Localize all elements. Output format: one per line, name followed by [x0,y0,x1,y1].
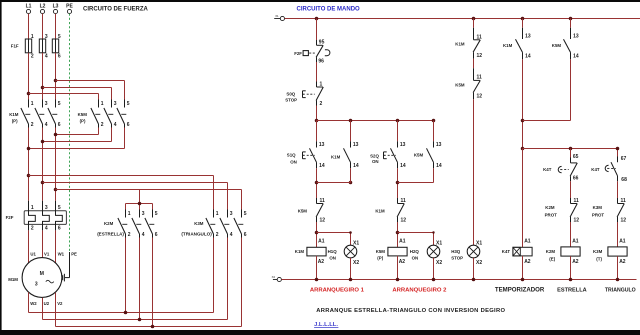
label K5M aux (col7) [552,43,562,48]
svg-text:11: 11 [574,198,580,204]
node K2M pole 2 junction [138,318,142,322]
node bottom rail lamp H2Q [432,278,436,282]
node L2 tap to K5M [41,86,45,90]
wire K5M NC to coil [316,222,318,247]
svg-text:12: 12 [574,218,580,224]
contactor K1M pole 2 [35,100,48,129]
motor M1M [22,258,62,298]
svg-text:14: 14 [319,163,325,169]
lamp H1Q [344,240,359,266]
svg-text:X2: X2 [272,275,276,279]
svg-text:ESTRELLA: ESTRELLA [557,287,587,293]
node tap L1 to K3M [27,174,31,178]
svg-text:K5M: K5M [376,249,386,254]
contact K1M aux 13-14 (col6) [516,28,531,60]
svg-text:L2: L2 [40,4,46,10]
svg-text:A2: A2 [524,259,531,265]
svg-text:X1: X1 [436,240,442,246]
svg-text:F2F: F2F [294,51,302,56]
wire F2F to motor W1 [55,230,57,263]
node merge L3 [54,133,58,137]
svg-text:95: 95 [319,40,325,46]
contact K5M aux 13-14 [427,141,442,169]
svg-text:K5M: K5M [414,152,424,157]
node timer feed [521,147,525,151]
svg-text:W1: W1 [58,252,65,257]
wire K5M aux to tie2 [433,168,435,182]
pushbutton S1Q ON [303,141,325,169]
thermal relay F2F element 2 [43,201,50,232]
svg-text:A2: A2 [318,259,325,265]
svg-text:13: 13 [573,33,579,39]
wire U2 down [42,298,44,320]
svg-text:1: 1 [101,101,104,107]
wire K1M pole 2 output down [42,128,44,201]
node tie K1M/K5M aux [521,119,525,123]
svg-text:U1: U1 [30,252,36,257]
caption ARRANQUEGIRO 2 [392,287,447,293]
svg-text:3: 3 [114,101,117,107]
svg-text:1: 1 [216,211,219,217]
caption title [316,308,505,314]
wire bottom bus 1 [29,312,214,314]
terminal L1 [26,4,32,14]
coil K4T (timer) [513,239,532,265]
label K5M NC (col5) [455,83,465,88]
svg-text:3: 3 [45,34,48,40]
svg-text:(P): (P) [377,256,383,261]
terminal X1 [274,14,284,21]
wire lamp H3Q to rail [473,258,475,280]
svg-text:(T): (T) [596,257,602,262]
label K2M PROT [545,205,558,218]
contactor K1M label [9,112,19,124]
svg-text:4: 4 [230,232,233,238]
svg-text:65: 65 [573,154,579,160]
svg-text:PE: PE [71,252,77,257]
svg-text:L3: L3 [53,4,59,10]
node merge L2 [41,140,45,144]
wire K5M pole 1 output to L3 column [56,128,99,135]
svg-text:K5M: K5M [78,112,88,117]
wire K1M NC to coil [397,222,399,247]
wire control top rail [285,18,640,20]
svg-text:(ESTRELLA): (ESTRELLA) [97,231,124,236]
svg-text:(P): (P) [80,118,86,123]
svg-text:ARRANQUEGIRO 1: ARRANQUEGIRO 1 [310,287,365,293]
wire K3M pole 1 to bottom bus [213,238,215,313]
svg-text:13: 13 [525,33,531,39]
contactor K2M label [97,221,124,236]
svg-text:TEMPORIZADOR: TEMPORIZADOR [495,286,545,293]
coil K2M [561,239,580,265]
svg-text:12: 12 [621,218,627,224]
svg-text:3: 3 [35,282,38,288]
terminal L3 [53,4,59,14]
wire coil K1M to rail [316,256,318,280]
svg-text:STOP: STOP [285,97,297,102]
wire K2M pole 2 to bottom bus [139,238,141,320]
wire lamp H1Q to rail [350,258,352,280]
svg-text:2: 2 [31,122,34,128]
node K2M pole 3 junction [151,325,155,329]
svg-text:11: 11 [401,198,407,204]
label S1Q ON [287,152,297,164]
wire lamp H1Q feed [317,233,351,246]
svg-text:K4T: K4T [543,167,552,172]
svg-text:X2: X2 [436,260,442,266]
svg-text:A2: A2 [572,259,579,265]
svg-text:3: 3 [45,205,48,211]
wire F2F to S0Q [316,62,318,82]
node L1 tap to K5M [27,92,31,96]
svg-text:ON: ON [290,159,297,164]
svg-text:6: 6 [58,122,61,128]
wire PE (green dashed) [69,14,71,252]
svg-text:4: 4 [142,232,145,238]
title CIRCUITO DE FUERZA [83,6,149,12]
node feeder to K4T NC [569,147,573,151]
node branch2 lamp tap [396,231,400,235]
label K1M aux [331,154,341,159]
label S2Q ON [370,154,379,164]
wire timed contacts feeder [523,148,618,150]
svg-text:H2Q: H2Q [410,249,420,254]
wire S1Q to tie1 [316,168,318,198]
node lamp H1Q feed [349,231,352,234]
svg-text:14: 14 [436,163,442,169]
wire S2Q to tie2 [397,168,399,198]
svg-text:K5M: K5M [552,43,562,48]
svg-text:1: 1 [128,211,131,217]
wire L2 fuse to K1M [42,53,44,100]
thermal relay F2F element 3 [56,201,63,232]
lamp H2Q [427,240,442,266]
label F2F (control) [294,51,302,56]
svg-text:X1: X1 [476,240,482,246]
label K4T timed NC [543,167,552,172]
label K3M PROT [592,205,605,218]
contactor K5M pole 1 [91,100,104,129]
thermal relay F2F element 1 [29,201,36,232]
svg-text:M1M: M1M [8,277,18,282]
label K1M NC (col5) [455,42,465,47]
svg-text:13: 13 [436,142,442,148]
coil K1M [307,239,326,265]
fuse F1F pole 3 [52,34,61,59]
svg-text:H3Q: H3Q [451,249,461,254]
wire K2M pole 3 to bottom bus [152,238,154,327]
wire tap L3 to K5M pin 5 [56,81,125,100]
title CIRCUITO DE MANDO [297,6,361,12]
wire K2M PROT to coil [570,222,572,247]
terminal PE [66,4,73,14]
svg-text:12: 12 [477,53,483,59]
svg-text:ON: ON [372,159,379,164]
fuse F1F label [11,43,19,48]
pushbutton S2Q ON [384,141,406,169]
svg-text:5: 5 [58,34,61,40]
wire tie1 [317,182,351,184]
wire K3M pole 2 to bottom bus [227,238,229,320]
wire tap L2 to K5M pin 3 [43,88,112,100]
wire tie aux outputs [523,120,571,122]
wire rail2 to S1Q [316,121,318,142]
svg-text:PROT: PROT [545,213,558,218]
wire tie2 [398,182,434,184]
node tie branch2 [396,181,400,185]
svg-text:4: 4 [45,53,48,59]
contactor K5M pole 3 [117,100,130,129]
svg-text:L1: L1 [26,4,32,10]
svg-text:X2: X2 [476,260,482,266]
wire tap L1 to K3M pin 1 [29,176,214,210]
svg-text:11: 11 [621,198,627,204]
svg-text:K3M: K3M [593,249,603,254]
svg-text:A1: A1 [399,239,406,245]
wire K5M aux col7 down [570,59,572,120]
wire rail to K1M aux (col6) [522,19,524,28]
svg-text:M: M [40,271,44,277]
svg-text:2: 2 [31,226,34,232]
svg-text:ARRANQUEGIRO 2: ARRANQUEGIRO 2 [392,287,447,293]
svg-text:1: 1 [31,34,34,40]
svg-text:W2: W2 [30,301,37,306]
svg-text:6: 6 [58,53,61,59]
wire lamp H2Q feed [398,233,434,246]
wire K1M pole 1 output down [28,128,30,201]
wire feeder to K4T timed NC [570,149,572,158]
svg-text:6: 6 [127,122,130,128]
svg-text:A1: A1 [572,239,579,245]
svg-text:K1M: K1M [455,42,465,47]
svg-text:S1Q: S1Q [287,152,296,157]
thermal contact F2F 95-96 [303,40,330,65]
svg-text:13: 13 [400,142,406,148]
wire coil K2M to rail [570,256,572,279]
node bottom rail K3M coil [616,278,620,282]
wire K5M pole 3 output to L1 column [29,128,125,149]
contactor K1M pole 1 [21,100,34,129]
svg-text:K4T: K4T [591,167,600,172]
wire rail2 to S2Q [397,121,399,142]
motor label M1M [8,277,18,282]
svg-text:96: 96 [318,59,324,65]
wire coil K4T to rail [522,256,524,280]
wire K1M pole 3 output down [55,128,57,201]
svg-text:STOP: STOP [451,256,463,261]
svg-text:5: 5 [58,101,61,107]
wire L1 to fuse [28,14,30,39]
label coil K3M [593,249,603,261]
node tie branch1 [315,181,319,185]
wire L3 to fuse [55,14,57,39]
svg-text:2: 2 [216,232,219,238]
contactor K3M label [181,221,212,236]
svg-text:12: 12 [320,218,326,224]
wire rail2 [317,120,434,122]
terminal X2 [272,275,282,282]
wire K1M aux to tie1 [350,168,352,182]
svg-text:3: 3 [45,101,48,107]
contact K1M NC interlock [397,198,406,224]
svg-text:U2: U2 [44,301,50,306]
svg-text:6: 6 [244,232,247,238]
svg-text:PROT: PROT [592,213,605,218]
wire L3 fuse to K1M [55,53,57,100]
label K1M NC [375,208,385,213]
wire F2F to motor V1 [42,230,44,258]
node branch1 lamp tap [315,231,319,235]
contactor K3M pole 3 [234,210,247,239]
svg-text:14: 14 [573,54,579,60]
contactor K1M pole 3 [48,100,61,129]
fuse F1F pole 1 [25,34,34,59]
svg-text:(TRIANGULO): (TRIANGULO) [181,231,212,236]
contact K3M PROT NC [617,198,626,224]
svg-text:K1M: K1M [331,154,341,159]
wire K2M pole 1 to bottom bus [125,238,127,313]
wire K4T NO to K3M PROT [617,181,619,198]
node top rail star branch [569,17,573,21]
svg-text:S2Q: S2Q [370,154,379,159]
svg-text:14: 14 [525,54,531,60]
svg-text:K2M: K2M [104,221,114,226]
node tie K1M aux [349,181,353,185]
node L3 tap to K5M [54,79,58,83]
fuse F1F pole 2 [39,34,48,59]
caption TRIANGULO [605,287,636,293]
svg-text:V1: V1 [44,252,50,257]
svg-text:ON: ON [412,256,419,261]
svg-text:K1M: K1M [295,249,305,254]
coil K5M [388,239,407,265]
contact K5M aux 13-14 (col7) [564,28,579,60]
svg-text:3: 3 [230,211,233,217]
node bottom rail K4T coil [521,278,525,282]
svg-text:A2: A2 [399,259,406,265]
coil K3M [608,239,627,265]
svg-text:2: 2 [101,122,104,128]
node lamp H2Q feed [432,231,434,233]
contact K2M PROT NC [570,198,579,224]
wire L1 fuse to K1M [28,53,30,100]
contactor K2M pole 2 [132,210,145,239]
wire coil K3M to rail [617,256,619,279]
caption ARRANQUEGIRO 1 [310,287,365,293]
contactor K3M pole 1 [206,210,219,239]
label S0Q STOP [285,92,297,103]
svg-text:F2F: F2F [6,215,14,220]
wire K3M pole 3 to bottom bus [241,238,243,327]
label coil K2M [546,249,556,261]
contact K5M NC interlock [316,198,325,224]
svg-text:12: 12 [401,218,407,224]
motor terminal labels U1 V1 W1 PE [30,252,77,257]
svg-text:X2: X2 [353,260,359,266]
label H2Q ON [410,249,420,260]
node bottom rail K5M coil [396,278,400,282]
node bottom rail lamp H3Q [472,278,476,282]
wire rail2 to K1M aux [350,121,352,142]
wire control bottom rail [281,279,636,281]
wire K5M pole 2 output to L2 column [43,128,112,142]
thermal relay F2F body [24,211,66,225]
svg-text:K2M: K2M [546,249,556,254]
label H3Q STOP [451,249,463,260]
wire S0Q to rail2 [316,106,318,121]
label K5M aux [414,152,424,157]
svg-text:V2: V2 [57,301,63,306]
terminal L2 [40,4,46,14]
svg-text:1: 1 [31,101,34,107]
node merge L1 [27,147,31,151]
contact K5M NC 11-12 (col5) [473,68,482,99]
wire coil K5M to rail [397,256,399,280]
node rail2 branch1 [315,119,319,123]
svg-text:14: 14 [353,163,359,169]
svg-text:X1: X1 [275,14,279,18]
svg-text:K4T: K4T [502,249,511,254]
svg-text:2: 2 [320,101,323,107]
node K2M pole 1 junction [124,311,128,315]
node bottom rail K2M coil [569,278,573,282]
caption ESTRELLA [557,287,587,293]
node tap L2 to K3M [41,181,45,185]
caption TEMPORIZADOR [495,286,545,293]
label K1M aux (col6) [503,43,513,48]
caption signature J.L.L.LL. [314,322,338,328]
wire W2 down [28,292,30,312]
svg-text:K3M: K3M [593,205,603,210]
svg-text:5: 5 [127,101,130,107]
svg-text:K5M: K5M [455,83,465,88]
wire K1M aux col6 down [522,59,524,148]
wire col5 to lamp H3Q [473,99,475,245]
svg-text:14: 14 [400,163,406,169]
svg-text:CIRCUITO DE MANDO: CIRCUITO DE MANDO [297,6,361,12]
svg-text:A1: A1 [318,239,325,245]
contactor K5M pole 2 [104,100,117,129]
lamp H3Q [467,240,482,266]
svg-text:11: 11 [477,34,483,40]
svg-text:66: 66 [573,176,579,182]
svg-text:K1M: K1M [9,112,19,117]
svg-text:H1Q: H1Q [328,249,338,254]
contactor K2M pole 3 [145,210,158,239]
wire tap L2 to K3M pin 3 [43,183,228,210]
wire lamp H2Q to rail [433,258,435,280]
contactor K3M pole 2 [220,210,233,239]
svg-text:1: 1 [31,205,34,211]
svg-text:A1: A1 [619,239,626,245]
node top rail stop-lamp branch [472,17,476,21]
svg-text:68: 68 [621,177,627,183]
svg-text:S0Q: S0Q [286,92,295,97]
svg-text:PE: PE [66,4,73,10]
svg-text:6: 6 [58,226,61,232]
svg-text:1: 1 [320,81,323,87]
contact K1M NC 11-12 (col5) [473,28,482,59]
node rail2 branch2 [396,119,400,123]
node feeder end [616,147,620,151]
wire bottom bus 3 [56,326,242,328]
svg-text:5: 5 [244,211,247,217]
wire rail2 to K5M aux [433,121,435,142]
svg-text:11: 11 [320,198,326,204]
label K4T coil [502,249,511,254]
contact K1M aux 13-14 [344,141,359,169]
